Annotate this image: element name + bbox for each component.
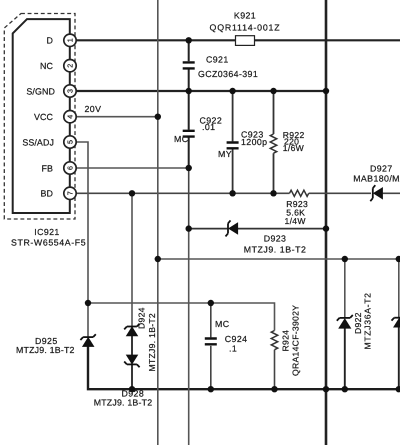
svg-text:NC: NC: [40, 61, 54, 71]
node bottom-rail: [323, 386, 329, 392]
svg-text:D923: D923: [264, 234, 287, 244]
svg-text:MTZJ9. 1B-T2: MTZJ9. 1B-T2: [244, 245, 307, 255]
svg-text:MTZJ36A-T2: MTZJ36A-T2: [363, 292, 373, 349]
pin label NC: [40, 61, 54, 71]
wire bottom rail y=389.2: [88, 346, 400, 389]
svg-text:MY: MY: [218, 149, 232, 159]
node D923 left: [186, 225, 192, 231]
node BD-R922: [270, 190, 276, 196]
wire y=303 line from x=88: [88, 303, 275, 331]
label R924 part number vertical: [291, 305, 301, 376]
node D923-rail: [323, 225, 329, 231]
pin 6 circle: [64, 162, 76, 174]
wire FB line y=168: [76, 167, 189, 169]
wire x=188.7 below D923 line: [188, 229, 190, 445]
resistor R924: [271, 331, 277, 350]
resistor R923: [285, 190, 309, 226]
svg-text:BD: BD: [40, 189, 53, 199]
node bottom-C924: [208, 386, 214, 392]
svg-text:5: 5: [65, 140, 74, 144]
svg-text:1/6W: 1/6W: [283, 143, 305, 153]
svg-text:D927: D927: [370, 163, 393, 173]
wire C924 chain x=210.8: [210, 303, 212, 389]
node VCC: [155, 114, 161, 120]
wire D924-D928 link x=132: [131, 335, 133, 355]
diode D927: [353, 163, 400, 201]
IC921 reference label: [11, 227, 86, 248]
svg-text:K921: K921: [234, 11, 256, 21]
node y303 start: [85, 300, 91, 306]
pin label S/GND: [26, 86, 55, 96]
svg-text:C924: C924: [225, 334, 248, 344]
wire C921 C922 chain x=188.7: [188, 40, 190, 168]
node FB-C922: [186, 165, 192, 171]
svg-text:.01: .01: [202, 122, 215, 132]
capacitor C922: [174, 116, 222, 145]
fuse K921: [210, 11, 281, 46]
wire D line y=40: [76, 39, 400, 41]
zener diode D922: [337, 315, 353, 328]
label 20V: [85, 104, 102, 114]
svg-text:IC921: IC921: [34, 227, 59, 237]
node S/GND-C923: [229, 88, 235, 94]
pin label VCC: [34, 112, 54, 122]
node y303-C924: [208, 300, 214, 306]
svg-text:1/4W: 1/4W: [285, 216, 307, 226]
wire y=259 line: [158, 258, 400, 260]
node S/GND-C921: [186, 88, 192, 94]
wire BD line y=193.3: [76, 192, 400, 194]
svg-text:20V: 20V: [85, 104, 102, 114]
wire C923 chain x=232.6: [232, 91, 234, 193]
zener diode D925: [16, 334, 96, 355]
svg-text:QQR1114-001Z: QQR1114-001Z: [210, 23, 281, 33]
wire R924 bottom x=274.5: [274, 350, 276, 390]
svg-text:VCC: VCC: [34, 112, 54, 122]
svg-text:FB: FB: [41, 163, 53, 173]
svg-text:R924: R924: [281, 330, 291, 352]
svg-text:GCZ0364-391: GCZ0364-391: [198, 69, 258, 79]
label D924 part number vertical: [147, 313, 157, 372]
capacitor C923: [218, 130, 267, 160]
wire x=188.7 FB to D923 line: [188, 168, 190, 229]
svg-text:.1: .1: [229, 344, 237, 354]
svg-text:3: 3: [65, 89, 74, 93]
node y259 right: [396, 256, 400, 262]
zener diode D923: [226, 220, 307, 254]
node bottom right: [396, 386, 400, 392]
svg-text:MTZJ9. 1B-T2: MTZJ9. 1B-T2: [94, 398, 153, 408]
node BD-x132: [129, 190, 135, 196]
wire R922 chain x=273.5: [273, 91, 275, 193]
svg-text:STR-W6554A-F5: STR-W6554A-F5: [11, 238, 86, 248]
IC921 dashed outline: [4, 14, 75, 220]
pin 1 circle: [64, 34, 76, 46]
wire VCC 20V line y=116.7: [76, 116, 158, 118]
svg-text:D922: D922: [353, 312, 363, 334]
node bottom-R924: [271, 386, 277, 392]
zener diode at right edge (partial): [392, 318, 400, 327]
svg-text:MC: MC: [215, 319, 230, 329]
svg-text:MTZJ9. 1B-T2: MTZJ9. 1B-T2: [147, 313, 157, 372]
node y259 start: [155, 256, 161, 262]
capacitor C924: [205, 319, 248, 354]
wire D923 line y=228.6: [189, 228, 326, 230]
svg-text:QRA14CF-3902Y: QRA14CF-3902Y: [291, 305, 301, 376]
wire long vertical x=157.8: [157, 0, 159, 445]
pin label BD: [40, 189, 53, 199]
node bottom-x132: [129, 386, 135, 392]
wire right branch x=398.8: [398, 259, 400, 389]
svg-text:MC: MC: [174, 134, 189, 144]
svg-text:4: 4: [65, 115, 74, 119]
svg-text:D: D: [46, 36, 53, 46]
svg-text:1: 1: [65, 38, 74, 42]
svg-text:D924: D924: [137, 307, 147, 329]
node S/GND-rail: [323, 88, 329, 94]
label R924 vertical: [281, 330, 291, 352]
wire S/GND line y=91: [76, 90, 326, 92]
resistor R922: [270, 130, 304, 153]
pin label FB: [41, 163, 53, 173]
svg-text:1200p: 1200p: [241, 137, 267, 147]
pin 2 circle: [64, 59, 76, 71]
wire main vertical rail x=326: [325, 0, 328, 445]
svg-text:S/GND: S/GND: [26, 86, 55, 96]
svg-text:6: 6: [65, 166, 74, 170]
wire D922 branch x=344.8: [344, 259, 346, 389]
pin 7 circle: [64, 187, 76, 199]
node S/GND-R922: [270, 88, 276, 94]
label D922 part number vertical: [363, 292, 373, 349]
pin label D: [46, 36, 53, 46]
zener diode D928: [94, 355, 153, 407]
pin 3 circle: [64, 85, 76, 97]
wire BD branch x=132: [131, 193, 133, 326]
node bottom-D922: [342, 386, 348, 392]
wire D928 to bottom rail x=132: [131, 364, 133, 389]
capacitor C921: [183, 55, 258, 80]
pin 4 circle: [64, 111, 76, 123]
pin 5 circle: [64, 136, 76, 148]
node D/C921: [186, 37, 192, 43]
node BD-C923: [229, 190, 235, 196]
pin label SS/ADJ: [22, 137, 54, 147]
IC921 solid body: [13, 19, 70, 213]
node y259-D922: [342, 256, 348, 262]
label D922 vertical: [353, 312, 363, 334]
svg-text:C921: C921: [206, 55, 229, 65]
wire SS/ADJ pin5 branch x=88: [76, 142, 88, 337]
svg-text:MTZJ9. 1B-T2: MTZJ9. 1B-T2: [16, 345, 75, 355]
svg-text:SS/ADJ: SS/ADJ: [22, 137, 54, 147]
svg-text:MAB180/MAB: MAB180/MAB: [353, 173, 400, 183]
svg-text:7: 7: [65, 191, 74, 195]
zener diode D924: [124, 324, 139, 336]
svg-text:2: 2: [65, 64, 74, 68]
label D924 vertical: [137, 307, 147, 329]
